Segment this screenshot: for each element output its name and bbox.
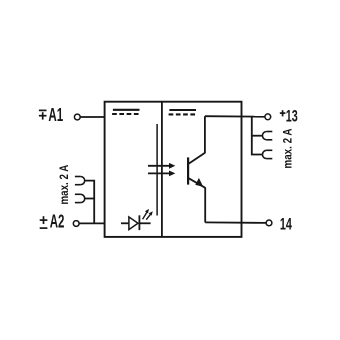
coupling arrow upper <box>148 163 175 169</box>
output top rail wire to +13 <box>205 115 265 118</box>
label minus-plus sign for A1 <box>39 110 47 119</box>
phototransistor Q1 collector lead <box>189 153 205 164</box>
LED D1 cathode bar <box>138 215 140 230</box>
right plug contact 2 <box>262 150 272 158</box>
DC symbol output (solid over dashed) <box>169 110 196 114</box>
right plug contact 1 <box>262 132 272 140</box>
LED D1 cathode wire <box>139 222 150 224</box>
svg-text:A1: A1 <box>48 105 63 125</box>
emitter riser wire <box>204 187 206 222</box>
left plug contact bus wire <box>84 181 94 224</box>
svg-text:max. 2 A: max. 2 A <box>280 128 294 168</box>
svg-text:A2: A2 <box>50 212 65 232</box>
right plug contact bus wire <box>252 117 263 155</box>
terminal A2 <box>73 221 79 227</box>
LED D1 emission arrow 2 <box>146 211 153 219</box>
label plus-minus sign for A2 <box>40 216 48 228</box>
LED D1 emission arrow 1 <box>143 209 149 219</box>
left plug contact 1 <box>75 177 85 185</box>
phototransistor Q1 emitter arrow <box>195 178 203 187</box>
terminal 14 <box>266 220 272 226</box>
cell divider <box>161 102 163 237</box>
left plug contact wire lower <box>84 198 94 200</box>
isolation barrier <box>156 124 158 216</box>
LED D1 anode wire <box>121 222 129 224</box>
svg-text:13: 13 <box>286 106 298 125</box>
DC symbol input (solid over dashed) <box>112 110 139 114</box>
label plus sign for 13 <box>280 110 286 116</box>
wire A1 to body <box>80 116 104 118</box>
LED D1 triangle <box>129 217 138 230</box>
svg-text:14: 14 <box>280 215 292 234</box>
left plug contact 2 <box>75 194 85 202</box>
wire A2 to body <box>79 222 104 224</box>
relay body outline <box>105 102 242 237</box>
terminal +13 <box>265 114 271 120</box>
phototransistor Q1 emitter lead <box>189 178 205 188</box>
right plug contact wire upper <box>252 135 263 137</box>
coupling arrow lower <box>148 171 175 177</box>
svg-text:max. 2 A: max. 2 A <box>57 164 71 204</box>
collector riser wire <box>204 116 206 153</box>
phototransistor Q1 base bar <box>187 157 189 184</box>
terminal A1 <box>74 114 80 120</box>
output bottom rail wire to 14 <box>205 221 266 224</box>
